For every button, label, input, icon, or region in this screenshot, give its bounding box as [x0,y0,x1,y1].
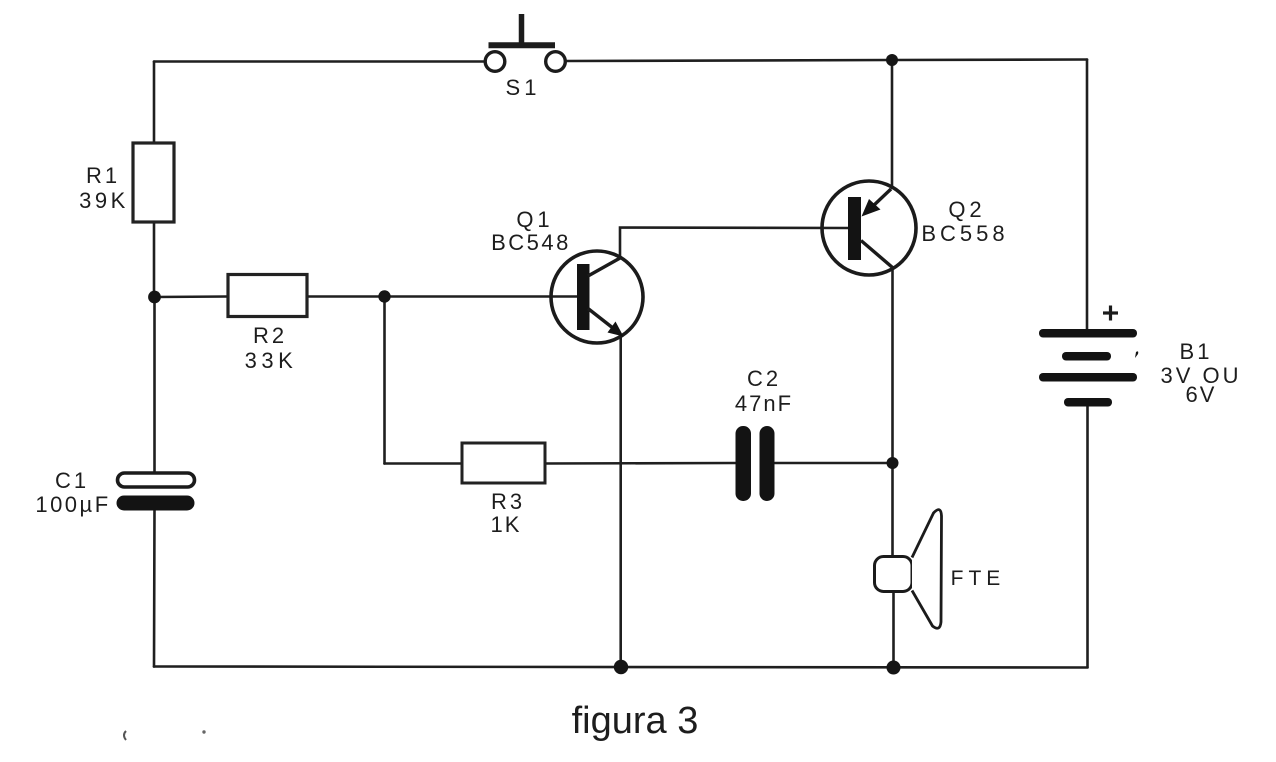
wire C1 bottom to bottom rail [153,509,156,667]
scan artifact marks [124,731,126,740]
wire node A to R2 [154,295,228,298]
switch S1 [485,14,565,100]
svg-text:S1: S1 [506,75,541,100]
svg-text:100µF: 100µF [35,492,110,517]
svg-text:B1: B1 [1180,339,1213,364]
svg-text:BC558: BC558 [921,221,1008,246]
svg-text:6V: 6V [1186,382,1217,407]
svg-text:Q2: Q2 [948,197,985,222]
svg-text:R2: R2 [253,323,287,348]
resistor R1 [79,143,174,222]
svg-text:47nF: 47nF [735,391,793,416]
node B junction dot [378,290,390,302]
capacitor C1 [35,468,194,517]
wire top-right horizontal [566,60,1087,62]
top rail junction dot [886,54,898,66]
svg-text:1K: 1K [491,512,522,537]
wire top-left horizontal [154,60,484,63]
transistor Q2 [822,181,1009,275]
wire node B down [383,297,386,464]
svg-text:BC548: BC548 [491,230,571,255]
resistor R3 [462,443,545,537]
svg-text:33K: 33K [245,348,298,373]
svg-text:Q1: Q1 [516,207,553,232]
wire Q1 collector to Q2 base [620,228,848,259]
wire speaker to bottom rail [892,592,895,668]
svg-text:R3: R3 [491,489,525,514]
wire left vertical top segment [153,62,156,145]
svg-text:figura 3: figura 3 [572,700,699,742]
svg-text:C2: C2 [747,366,781,391]
capacitor C2 [735,366,793,501]
node A junction dot [148,291,161,304]
wire R3 to C2 [545,462,735,465]
battery B1 [1039,306,1242,408]
wire C2 to node C [775,462,893,465]
wire Q2 emitter from top rail [891,60,894,188]
bottom rail junction dot left [614,660,628,674]
svg-text:FTE: FTE [951,567,1006,590]
wire Q2 collector down through node C to speaker [891,268,894,556]
resistor R2 [228,275,307,374]
bottom rail junction dot right [887,661,901,675]
wire to R3 left [385,462,463,465]
wire R1 bottom to node A [153,221,156,297]
wire node B to Q1 base [385,295,578,298]
transistor Q1 [491,207,643,343]
svg-text:39K: 39K [79,188,129,213]
wire Q1 emitter to bottom rail [619,336,622,667]
svg-text:C1: C1 [55,468,89,493]
wire right vertical lower [1086,404,1089,667]
wire right vertical upper [1086,60,1089,332]
speaker FTE [875,510,1006,629]
wire node A to C1 [153,297,156,474]
node C junction dot [887,457,899,469]
svg-text:R1: R1 [86,163,120,188]
wire bottom horizontal [154,667,1088,668]
wire R2 to node B [307,295,385,298]
